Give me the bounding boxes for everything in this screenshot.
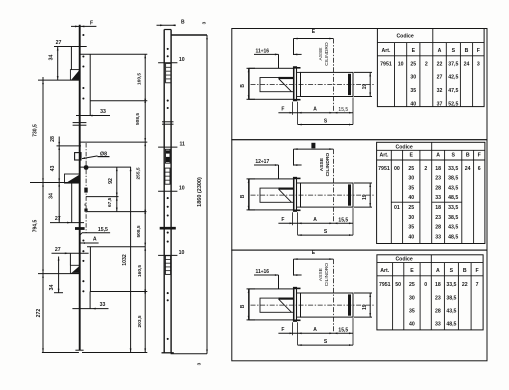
svg-text:ASSE: ASSE (318, 47, 324, 61)
svg-text:10: 10 (179, 186, 185, 192)
svg-text:33: 33 (100, 109, 106, 115)
svg-text:34: 34 (48, 193, 54, 199)
svg-text:12÷17: 12÷17 (255, 159, 269, 165)
svg-text:15,5: 15,5 (338, 328, 348, 334)
svg-text:19: 19 (362, 194, 368, 200)
svg-text:B: B (463, 268, 467, 274)
svg-text:23: 23 (435, 295, 441, 301)
svg-text:15,5: 15,5 (338, 107, 348, 113)
svg-text:F: F (477, 48, 480, 54)
svg-text:28: 28 (435, 185, 441, 191)
svg-text:B: B (181, 19, 185, 25)
svg-text:S: S (450, 268, 454, 274)
svg-text:24: 24 (464, 61, 470, 67)
svg-text:F: F (476, 268, 479, 274)
svg-text:A: A (313, 107, 317, 113)
svg-text:508,5: 508,5 (136, 225, 142, 237)
svg-text:30: 30 (410, 75, 416, 81)
svg-text:B: B (240, 304, 246, 308)
svg-text:33,5: 33,5 (448, 166, 458, 172)
svg-text:11: 11 (179, 141, 185, 147)
svg-text:48,5: 48,5 (448, 195, 458, 201)
svg-text:48,5: 48,5 (448, 234, 458, 240)
svg-text:01: 01 (394, 205, 400, 211)
svg-text:37: 37 (437, 101, 443, 107)
svg-text:E: E (412, 48, 416, 54)
svg-text:CILINDRO: CILINDRO (324, 42, 330, 66)
svg-text:35: 35 (410, 88, 416, 94)
svg-text:7951: 7951 (378, 166, 390, 172)
svg-text:160,5: 160,5 (136, 73, 142, 85)
svg-text:7951: 7951 (380, 61, 392, 67)
svg-text:3: 3 (201, 21, 207, 24)
svg-text:Art.: Art. (380, 268, 389, 274)
svg-text:52,5: 52,5 (448, 101, 458, 107)
svg-text:37,5: 37,5 (448, 61, 458, 67)
svg-text:11÷16: 11÷16 (256, 269, 270, 275)
svg-text:30: 30 (409, 295, 415, 301)
svg-text:34: 34 (49, 285, 55, 291)
svg-text:F: F (90, 21, 93, 27)
svg-text:F: F (281, 107, 284, 113)
svg-text:47,5: 47,5 (448, 88, 458, 94)
svg-text:10: 10 (179, 57, 185, 63)
svg-text:28: 28 (435, 309, 441, 315)
svg-text:33,5: 33,5 (448, 205, 458, 211)
svg-text:33: 33 (100, 302, 106, 308)
svg-text:22: 22 (437, 61, 443, 67)
svg-text:38,5: 38,5 (448, 176, 458, 182)
svg-text:33: 33 (435, 234, 441, 240)
svg-text:35: 35 (408, 225, 414, 231)
svg-text:34: 34 (48, 55, 54, 61)
svg-text:15,5: 15,5 (98, 227, 108, 233)
svg-text:38,5: 38,5 (446, 295, 456, 301)
svg-text:B: B (240, 84, 246, 88)
svg-text:730,5: 730,5 (33, 124, 39, 137)
svg-text:28: 28 (435, 225, 441, 231)
svg-text:25: 25 (410, 61, 416, 67)
svg-text:A: A (436, 152, 440, 158)
svg-text:Art.: Art. (381, 48, 390, 54)
svg-text:19: 19 (362, 304, 368, 310)
svg-text:160,5: 160,5 (137, 265, 143, 277)
svg-text:Art.: Art. (379, 152, 388, 158)
svg-text:CILINDRO: CILINDRO (325, 153, 331, 177)
svg-text:40: 40 (410, 101, 416, 107)
svg-text:10: 10 (398, 61, 404, 67)
svg-text:1860 (2300): 1860 (2300) (197, 177, 203, 207)
svg-text:Codice: Codice (396, 34, 413, 40)
svg-text:2: 2 (424, 166, 427, 172)
svg-text:6: 6 (478, 166, 481, 172)
svg-text:27: 27 (56, 40, 62, 46)
svg-text:25: 25 (409, 282, 415, 288)
svg-text:18: 18 (435, 282, 441, 288)
svg-text:33: 33 (435, 322, 441, 328)
svg-text:B: B (240, 194, 246, 198)
svg-text:A: A (438, 48, 442, 54)
svg-text:33: 33 (435, 195, 441, 201)
svg-text:15,5: 15,5 (338, 218, 348, 224)
svg-text:F: F (281, 327, 284, 333)
svg-text:508,5: 508,5 (135, 113, 141, 125)
svg-text:Codice: Codice (395, 257, 412, 263)
svg-text:794,5: 794,5 (33, 220, 39, 233)
svg-text:00: 00 (394, 166, 400, 172)
svg-text:40: 40 (408, 195, 414, 201)
svg-text:A: A (313, 217, 317, 223)
svg-text:3: 3 (477, 61, 480, 67)
svg-text:28: 28 (50, 136, 56, 142)
svg-text:ASSE: ASSE (319, 157, 325, 171)
svg-text:40: 40 (409, 322, 415, 328)
svg-text:22: 22 (462, 282, 468, 288)
svg-text:F: F (478, 152, 481, 158)
svg-text:27: 27 (437, 75, 443, 81)
svg-text:92: 92 (108, 178, 114, 184)
svg-text:67,5: 67,5 (107, 197, 113, 207)
svg-text:Codice: Codice (396, 144, 413, 150)
svg-text:27: 27 (55, 216, 61, 222)
svg-text:43: 43 (50, 166, 56, 172)
svg-text:3: 3 (197, 362, 203, 365)
svg-text:38,5: 38,5 (448, 215, 458, 221)
svg-text:ASSE: ASSE (318, 267, 324, 281)
svg-text:19: 19 (362, 84, 368, 90)
svg-text:40: 40 (408, 234, 414, 240)
svg-text:9: 9 (84, 203, 86, 207)
svg-text:255,5: 255,5 (136, 167, 142, 179)
svg-text:23: 23 (435, 176, 441, 182)
svg-text:E: E (410, 268, 414, 274)
svg-text:42,5: 42,5 (448, 75, 458, 81)
svg-text:1032: 1032 (122, 254, 128, 266)
svg-text:25: 25 (408, 205, 414, 211)
svg-text:2: 2 (425, 61, 428, 67)
svg-text:272: 272 (36, 309, 42, 318)
svg-text:7: 7 (476, 282, 479, 288)
svg-text:43,5: 43,5 (446, 309, 456, 315)
svg-text:S: S (451, 152, 455, 158)
svg-text:B: B (466, 152, 470, 158)
svg-text:A: A (313, 327, 317, 333)
svg-text:A: A (93, 237, 97, 243)
svg-text:30: 30 (408, 215, 414, 221)
svg-text:48,5: 48,5 (446, 322, 456, 328)
svg-text:27: 27 (55, 247, 61, 253)
svg-text:35: 35 (409, 309, 415, 315)
svg-text:CILINDRO: CILINDRO (324, 263, 330, 287)
svg-text:11÷16: 11÷16 (256, 48, 270, 54)
svg-text:E: E (410, 152, 414, 158)
svg-text:35: 35 (408, 185, 414, 191)
svg-text:A: A (436, 268, 440, 274)
svg-text:F: F (281, 217, 284, 223)
svg-text:25: 25 (408, 166, 414, 172)
svg-text:43,5: 43,5 (448, 225, 458, 231)
svg-text:7951: 7951 (379, 282, 391, 288)
svg-text:10: 10 (179, 250, 185, 256)
svg-text:30: 30 (408, 176, 414, 182)
svg-text:18: 18 (435, 166, 441, 172)
svg-text:23: 23 (435, 215, 441, 221)
svg-text:18: 18 (435, 205, 441, 211)
svg-text:43,5: 43,5 (448, 185, 458, 191)
svg-text:B: B (465, 48, 469, 54)
svg-text:32: 32 (437, 88, 443, 94)
svg-text:203,5: 203,5 (137, 315, 143, 327)
svg-text:0: 0 (424, 282, 427, 288)
svg-text:50: 50 (395, 282, 401, 288)
svg-text:S: S (452, 48, 456, 54)
svg-text:33,5: 33,5 (446, 282, 456, 288)
svg-text:24: 24 (465, 166, 471, 172)
